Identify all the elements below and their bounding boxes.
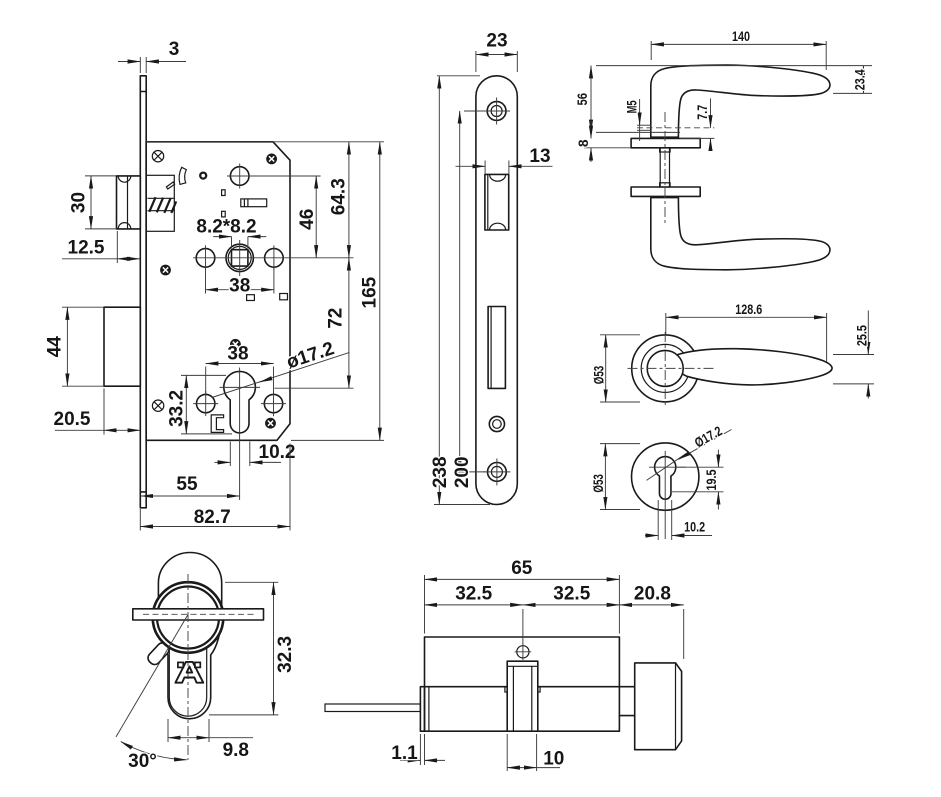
svg-text:72: 72 [325,308,346,329]
internal pin dot [200,173,206,179]
dimension 12.5 (latch projection) [62,231,140,263]
dimension 38 (lower hole spacing) [206,344,274,395]
dimension 32.3 (profile height) [209,582,296,715]
svg-text:7.7: 7.7 [695,105,710,120]
dimension 13 (latch cutout width) [456,146,553,174]
dimension 25.5 (grip width) [833,311,874,399]
upper lever [651,65,830,137]
dimension 8.2*8.2 (spindle square) [196,217,266,249]
dimension 23 (faceplate width) [476,31,517,73]
small slot d [280,294,288,300]
dimension 65 (body length) [425,558,620,634]
key rose outer circle [632,443,699,510]
dimension 1.1 (cap) [391,734,445,765]
deadbolt housing (protruding, lower) [104,307,140,386]
svg-text:55: 55 [176,474,198,495]
dimension 8 (rose height) [576,121,631,162]
internal slanted stop [166,182,174,189]
dimension 20.8 (knob length) [619,584,683,660]
dimension 55 (backset) [141,438,240,501]
screw bottom-right (filled) [265,418,276,429]
dimension 140 (lever length) [651,29,826,70]
screw top-left (cross in circle) [152,151,163,162]
euro profile keyhole [655,457,676,500]
svg-text:1.1: 1.1 [391,743,418,764]
dimension 3 (faceplate thickness) [118,39,186,73]
small guide ring [489,416,504,431]
screw mid-left (filled) [160,265,171,276]
dimension 72 [274,258,353,388]
svg-text:38: 38 [229,276,250,297]
svg-text:82.7: 82.7 [194,507,231,528]
svg-text:8: 8 [576,139,591,147]
screw bottom-left (cross in circle) [152,400,163,411]
svg-text:32.5: 32.5 [553,584,590,605]
dimension 56 [575,66,680,133]
dimension 128.6 [666,302,827,362]
dimension 238 (faceplate length) [430,76,490,505]
svg-text:25.5: 25.5 [855,325,870,346]
svg-text:32.3: 32.3 [275,636,296,673]
small slot c [247,295,255,301]
dimension 30 (latch height) [68,176,116,229]
rose inner step circle [641,344,689,392]
svg-text:128.6: 128.6 [735,302,762,317]
bottom fixing screw [483,458,510,485]
latch housing box inside case [146,175,174,231]
svg-text:13: 13 [529,146,550,167]
latch cutout [485,174,509,230]
dimension 82.7 (case depth) [140,444,290,531]
dimension 23.4 (lever end height) [596,66,872,94]
spindle row centerline [193,257,286,259]
dimension 19.5 [672,450,724,510]
svg-text:10: 10 [543,748,564,769]
svg-text:23: 23 [486,31,507,52]
svg-text:8.2*8.2: 8.2*8.2 [196,217,256,238]
dimension 64.3 [146,142,384,258]
cylinder rear body silhouette [158,553,221,719]
centerlines [628,367,717,369]
dimension 7.7 [680,98,714,150]
svg-text:44: 44 [44,336,65,358]
locking bracket detail [211,415,223,433]
svg-text:238: 238 [430,456,451,488]
lower fixing hole left [193,391,218,416]
svg-text:200: 200 [452,456,473,488]
svg-text:M5: M5 [624,100,639,113]
front profile stem [169,648,206,717]
screw top-right (filled) [266,154,277,165]
dimension 9.8 (stem width) [168,719,253,761]
dimension 20.5 [54,389,141,435]
faceplate edge strip [140,76,146,508]
dimension 32.5 left [425,584,523,645]
dimension 10.2 (cylinder stem width) [215,442,296,467]
dimension 200 (screw spacing) [452,111,485,488]
leader dia17.2 (keyhole) [679,423,732,459]
logo A with umlaut [175,662,203,683]
dimension 38 (handle hole spacing) [206,268,274,297]
svg-text:46: 46 [297,209,318,230]
thumbturn neck [619,687,634,716]
screw center (filled) [230,339,241,350]
fixing screw hole [515,644,532,661]
svg-text:19.5: 19.5 [704,469,719,490]
rose outer circle [632,335,699,402]
svg-text:9.8: 9.8 [223,740,249,761]
svg-text:20.5: 20.5 [54,409,91,430]
svg-text:20.8: 20.8 [634,584,671,605]
svg-text:12.5: 12.5 [68,238,105,259]
latch bolt (protruding, front) [117,176,141,229]
lock case body outline [146,142,290,441]
svg-text:38: 38 [227,344,248,365]
svg-text:23.4: 23.4 [853,69,868,90]
dimension 165 (case height) [291,142,384,441]
latch spring [148,197,177,213]
svg-text:64.3: 64.3 [328,178,349,215]
latch roller [487,174,489,230]
svg-text:Ø53: Ø53 [591,474,606,493]
cam wheel [505,661,540,731]
lever grip (top view) [676,349,832,385]
30 degree arc [121,742,187,760]
handle fixing hole left [196,245,215,270]
front cap [420,687,424,732]
M5 label and leader [624,99,639,141]
faceplate outline [476,76,517,505]
assembly centerline [664,112,666,224]
svg-text:65: 65 [511,558,533,579]
spindle hub with square follower [226,240,253,276]
cam bar [133,609,264,620]
upper guide hole [227,164,321,189]
svg-text:33.2: 33.2 [167,390,188,427]
vertical centerline [187,574,189,760]
dimension 10.2 (keyhole stem) [645,500,712,540]
dimension 33.2 (cylinder profile height) [167,375,232,434]
euro profile cylinder hole [220,368,261,438]
svg-text:140: 140 [732,29,750,44]
svg-text:Ø53: Ø53 [591,365,606,384]
handle fixing hole right [265,245,284,270]
svg-text:32.5: 32.5 [455,584,492,605]
dimension 46 [286,176,354,258]
leader dia 17.2 (cylinder hole) [212,338,349,397]
M5 set screw (hidden) [637,125,714,130]
lower rose (side) [631,187,700,196]
spindle shaft [660,148,671,187]
svg-text:10.2: 10.2 [684,520,705,535]
dimension 44 (deadbolt housing height) [44,307,104,386]
fixing lug (left) [146,641,172,667]
svg-text:165: 165 [360,276,381,308]
spring-loaded follower block [241,199,267,207]
dimension 32.5 right [523,584,620,605]
upper rose (side) [631,138,700,147]
svg-text:3: 3 [169,39,180,60]
neck collar circle [647,350,683,386]
keyhole centerlines [647,451,687,539]
dimension dia53 (key rose) [591,444,640,510]
lower fixing hole right [261,391,286,416]
connecting rod [325,704,420,712]
thumbturn knob [635,663,682,750]
lower lever (mirror) [651,198,830,270]
cylinder body [425,637,620,731]
internal pawl (curved piece) [179,167,186,184]
dimension dia53 (rose) [591,335,640,402]
svg-text:30: 30 [68,192,89,213]
small slot b [222,211,226,217]
svg-text:56: 56 [575,93,590,106]
small slot a [222,190,226,196]
dimension 10 (cam width) [507,734,564,771]
top fixing screw [483,98,510,125]
svg-text:30°: 30° [128,751,157,772]
30 degree reference line [116,615,188,737]
deadbolt cutout [488,307,505,389]
plug face ring [153,582,224,653]
